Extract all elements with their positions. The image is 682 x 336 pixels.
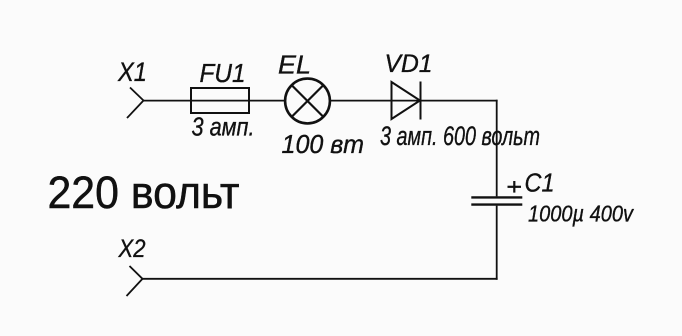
svg-text:X2: X2	[118, 235, 146, 263]
svg-text:3 амп. 600 вольт: 3 амп. 600 вольт	[380, 121, 540, 151]
svg-text:3 амп.: 3 амп.	[192, 112, 255, 142]
svg-text:EL: EL	[278, 50, 311, 80]
svg-text:220 вольт: 220 вольт	[48, 167, 240, 218]
svg-text:100 вт: 100 вт	[282, 129, 365, 159]
svg-text:X1: X1	[117, 57, 147, 87]
svg-text:FU1: FU1	[200, 58, 246, 88]
svg-text:C1: C1	[525, 168, 555, 198]
svg-text:1000µ 400v: 1000µ 400v	[528, 201, 634, 227]
svg-text:VD1: VD1	[385, 50, 433, 78]
